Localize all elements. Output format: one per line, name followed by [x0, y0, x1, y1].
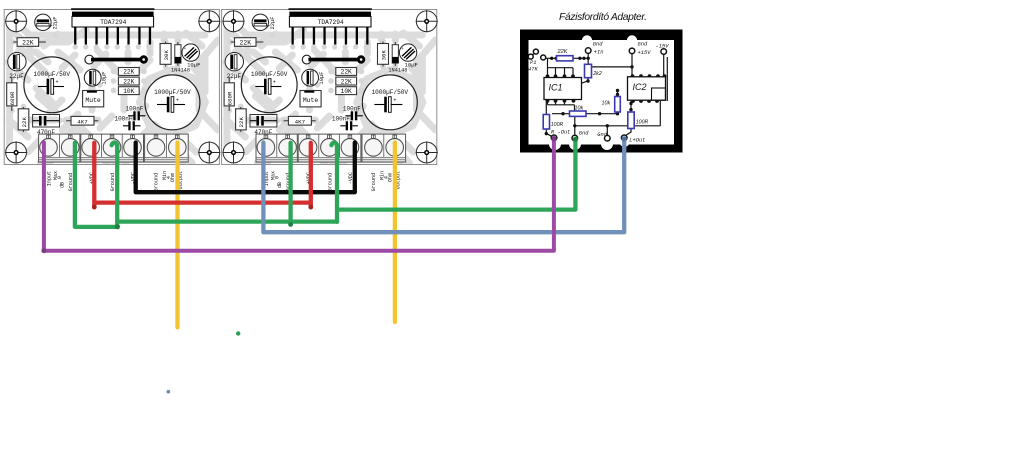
wire 10k vertical top stub	[617, 90, 619, 97]
mounting hole bottom-left	[5, 141, 27, 163]
pads with labels	[528, 48, 666, 141]
capacitor C 22uF (top, axial top view)	[35, 14, 59, 30]
resistor 100R right	[628, 112, 634, 129]
mounting hole top-right	[198, 10, 220, 32]
svg-text:10k: 10k	[602, 101, 611, 107]
svg-text:30K: 30K	[163, 50, 170, 61]
svg-text:22K: 22K	[21, 117, 28, 128]
svg-text:1000µF/50V: 1000µF/50V	[34, 71, 71, 78]
capacitor 10uF (middle)	[84, 69, 107, 86]
capacitor C 22uF (left, radial)	[8, 53, 26, 81]
stray green dot	[236, 331, 240, 335]
terminal block group 3	[145, 134, 189, 162]
WIRES	[41, 136, 626, 327]
wire IC2 to 100R right	[630, 101, 632, 112]
resistor 2K2	[585, 64, 592, 77]
svg-text:IC2: IC2	[633, 82, 647, 92]
IC U1 TDA7294 body	[72, 16, 154, 27]
stray blue dot	[167, 390, 171, 394]
svg-text:Fázisfordító Adapter.: Fázisfordító Adapter.	[559, 12, 647, 23]
svg-text:22K: 22K	[123, 78, 134, 85]
pad notches in frame	[582, 35, 592, 45]
wire yellow speaker output (board 1)	[175, 143, 179, 328]
op-amp IC1	[544, 78, 582, 100]
wire -15V drop	[663, 54, 665, 76]
wire end dots	[41, 136, 626, 253]
resistor 100R left	[543, 115, 549, 130]
IC1 pins	[546, 74, 550, 78]
mounting hole top-left	[5, 10, 27, 32]
svg-text:47K: 47K	[528, 67, 538, 73]
svg-text:IC1: IC1	[549, 83, 563, 93]
svg-text:1000µF/50V: 1000µF/50V	[154, 89, 191, 96]
BOARDS	[4, 8, 220, 191]
Mute jumper block	[83, 91, 104, 107]
svg-text:dB: dB	[60, 182, 66, 188]
svg-text:+15V: +15V	[638, 50, 652, 56]
IC U1 TDA7294 tab	[71, 8, 154, 10]
svg-text:10k: 10k	[575, 106, 584, 112]
svg-text:+: +	[22, 55, 25, 60]
resistor 22K (top-left)	[13, 38, 46, 47]
svg-text:Gnd: Gnd	[597, 132, 607, 138]
svg-text:Gnd: Gnd	[593, 42, 603, 48]
wire IC2 right to ground bus	[659, 100, 661, 125]
resistor 22K (bottom-left, vertical)	[18, 107, 29, 132]
wire 2K2 bottom to IC1	[582, 78, 589, 84]
wire yellow speaker output (board 2)	[393, 143, 397, 323]
svg-text:Input: Input	[47, 171, 53, 186]
wire black -VDC bus	[136, 143, 355, 193]
capacitor 10uF (top-right, diagonal stripes)	[182, 44, 201, 69]
svg-text:Ground: Ground	[153, 173, 159, 191]
svg-text:+: +	[176, 98, 179, 104]
terminal labels (rotated)	[47, 171, 185, 191]
IC U1 pins	[74, 27, 151, 45]
wire 100R right to L+Out pad	[624, 129, 631, 137]
svg-text:100R: 100R	[636, 120, 649, 126]
amplifier board 2 (TDA7294, identical copy)	[222, 8, 438, 191]
junction dots	[545, 57, 667, 136]
svg-text:10K: 10K	[123, 88, 134, 95]
wire purple input R to adapter	[44, 139, 554, 251]
IC2 pins	[631, 74, 635, 78]
svg-text:0: 0	[57, 176, 63, 179]
wire red +VDC bus	[94, 143, 310, 207]
wire IC1 top feeds	[548, 58, 574, 76]
svg-text:22µF: 22µF	[53, 17, 59, 30]
wire blue input L to adapter	[263, 139, 624, 232]
svg-text:22K: 22K	[22, 39, 34, 46]
wire green ground (board 2 terminal 4)	[335, 145, 339, 222]
svg-text:4K7: 4K7	[77, 118, 88, 125]
wire 100R left to R-Out pad	[546, 129, 554, 137]
svg-text:22K: 22K	[123, 69, 134, 76]
copper trace pattern (light gray)	[8, 24, 218, 163]
wire 2K2 to IC2 row	[592, 66, 633, 68]
svg-text:+: +	[184, 47, 187, 52]
resistor 10K horizontal	[570, 111, 587, 116]
svg-text:10µF: 10µF	[187, 61, 200, 68]
wire ground bus	[575, 116, 661, 138]
wire 10K to 10k vertical	[586, 112, 618, 114]
wire IC1 bottom bus	[548, 101, 575, 112]
svg-text:+: +	[56, 80, 59, 86]
capacitor C1 1000uF/50V (left)	[24, 57, 80, 113]
diode 1N4148	[171, 42, 190, 73]
ADAPTER	[520, 12, 683, 153]
terminal block group 2	[81, 134, 144, 162]
wire -15V right rail	[666, 57, 668, 101]
wire green ground to adapter	[337, 140, 575, 210]
board outline	[4, 10, 219, 165]
capacitor 100nF #2	[114, 116, 140, 131]
svg-text:10µF: 10µF	[101, 72, 107, 85]
svg-text:L+Out: L+Out	[629, 137, 645, 143]
svg-text:2k2: 2k2	[592, 71, 602, 77]
svg-text:680R: 680R	[9, 91, 16, 105]
resistor 10k vertical	[615, 97, 621, 113]
svg-text:+: +	[97, 71, 100, 76]
resistors 22K/22K/10K stack	[118, 68, 139, 95]
capacitor 470nF	[33, 115, 60, 137]
svg-text:Ohm: Ohm	[170, 173, 176, 182]
wire green ground U (board 1)	[75, 143, 117, 227]
op-amp IC2	[628, 77, 666, 100]
terminal block group 1	[39, 134, 80, 162]
svg-text:Gnd: Gnd	[579, 130, 589, 136]
svg-text:-15V: -15V	[656, 44, 670, 50]
capacitor 100nF #1	[125, 106, 145, 121]
svg-text:+In: +In	[594, 50, 604, 56]
resistor 22K	[557, 56, 574, 61]
wire +15V drop	[631, 53, 633, 76]
capacitor C2 1000uF/50V (right)	[145, 75, 200, 130]
adapter frame	[520, 30, 683, 153]
wire +In pad drop	[587, 51, 589, 65]
svg-text:22K: 22K	[557, 49, 568, 55]
schematic wires	[532, 51, 667, 138]
resistor 30K (vertical)	[160, 42, 171, 67]
svg-text:TDA7294: TDA7294	[100, 19, 126, 26]
svg-text:R -Out: R -Out	[551, 130, 570, 136]
wire green ground bus between boards	[117, 219, 337, 223]
svg-text:Gnd: Gnd	[638, 42, 648, 48]
resistor 4K7	[66, 116, 98, 125]
mounting hole bottom-right	[198, 141, 220, 163]
wire input row	[543, 57, 588, 59]
svg-text:Mute: Mute	[85, 97, 101, 104]
svg-text:P1: P1	[530, 60, 536, 66]
resistor 680R (vertical)	[7, 77, 17, 111]
wire green ground stub (board 2 terminal 2)	[288, 143, 292, 225]
black jumper trace with pads	[85, 55, 148, 64]
wire P1 link	[532, 53, 535, 55]
wire IC1 to 100R left	[545, 101, 547, 115]
wire 100R left to 10K	[552, 113, 570, 115]
svg-text:100R: 100R	[551, 122, 564, 128]
